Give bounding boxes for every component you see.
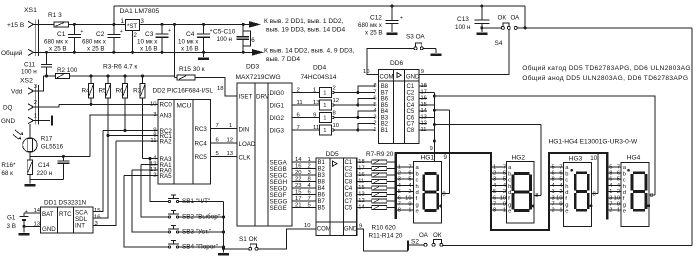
svg-text:15: 15: [94, 208, 101, 214]
display HG2: [506, 162, 534, 224]
svg-text:R10 620: R10 620: [372, 225, 397, 232]
svg-text:B3: B3: [318, 173, 326, 179]
svg-text:B4: B4: [381, 109, 389, 115]
svg-text:2: 2: [493, 171, 496, 177]
svg-text:10: 10: [304, 223, 311, 229]
svg-text:6: 6: [398, 195, 401, 201]
svg-text:х 16 В: х 16 В: [140, 46, 158, 53]
svg-text:2: 2: [398, 171, 401, 177]
svg-text:C11: C11: [24, 62, 36, 69]
svg-text:C12: C12: [370, 15, 382, 22]
wire DD6 COM to S3: [367, 48, 414, 74]
svg-text:1: 1: [323, 128, 326, 134]
svg-text:INT: INT: [75, 223, 85, 230]
svg-text:DRV: DRV: [256, 94, 270, 101]
svg-text:9: 9: [503, 202, 506, 208]
svg-text:2: 2: [559, 189, 562, 195]
svg-text:d: d: [623, 190, 626, 196]
svg-text:10: 10: [590, 155, 597, 162]
svg-text:b: b: [565, 171, 568, 177]
svg-text:e: e: [508, 209, 511, 215]
resistor R8: [372, 167, 387, 171]
wire ground rail: [34, 51, 253, 53]
svg-text:4: 4: [373, 108, 376, 114]
resistor R7: [372, 160, 387, 164]
svg-text:g: g: [508, 202, 511, 208]
wire S4 to DD6 GND: [419, 30, 509, 75]
svg-text:g: g: [565, 202, 568, 208]
svg-text:1: 1: [323, 90, 326, 96]
svg-text:B7: B7: [318, 199, 326, 205]
svg-text:680 мк х: 680 мк х: [358, 22, 383, 29]
svg-text:8: 8: [398, 208, 401, 214]
wire Vdd sensor line: [44, 75, 56, 77]
svg-text:DIG3: DIG3: [270, 127, 285, 134]
svg-text:8: 8: [650, 193, 653, 199]
svg-text:21: 21: [295, 203, 302, 209]
svg-text:b: b: [508, 171, 511, 177]
wire RC2 line: [103, 130, 158, 132]
svg-text:68 к: 68 к: [1, 170, 13, 177]
wire XS2 Vdd: [34, 76, 44, 91]
svg-text:7: 7: [552, 202, 555, 208]
wire RA2 line: [116, 140, 158, 142]
svg-text:B8: B8: [381, 84, 389, 90]
wire R11 to bus: [387, 187, 396, 189]
svg-text:9: 9: [421, 69, 424, 75]
svg-text:R15 30 к: R15 30 к: [179, 66, 205, 73]
svg-text:ОК: ОК: [498, 15, 507, 22]
display HG3: [564, 162, 592, 226]
wire R6 bottom: [124, 98, 126, 131]
svg-text:h: h: [623, 184, 626, 190]
svg-text:2: 2: [373, 121, 376, 127]
svg-text:2: 2: [503, 189, 506, 195]
svg-text:ОК: ОК: [433, 232, 442, 239]
svg-text:выв. 19 DD3, выв. 14 DD4: выв. 19 DD3, выв. 14 DD4: [266, 27, 346, 34]
svg-text:+15 В: +15 В: [7, 22, 24, 29]
svg-text:1: 1: [408, 208, 411, 214]
svg-text:6: 6: [373, 96, 376, 102]
wire R4 bottom: [90, 98, 92, 105]
svg-text:SB2 "Выбор": SB2 "Выбор": [182, 212, 220, 220]
svg-text:1: 1: [617, 208, 620, 214]
svg-text:B8: B8: [318, 180, 326, 186]
wire pullup rail: [69, 75, 174, 77]
svg-text:9: 9: [559, 202, 562, 208]
wire R9 to bus: [387, 174, 396, 176]
svg-text:х 25 В: х 25 В: [87, 46, 105, 53]
wire +15V rail: [34, 23, 55, 25]
svg-text:4: 4: [503, 183, 506, 189]
svg-text:B2: B2: [318, 167, 326, 173]
svg-text:100 н: 100 н: [217, 36, 232, 43]
svg-text:RTC: RTC: [59, 211, 72, 218]
svg-text:2: 2: [617, 189, 620, 195]
wire R14 to bus: [387, 207, 396, 209]
svg-text:8: 8: [552, 177, 555, 183]
svg-text:18: 18: [217, 86, 224, 92]
wire DD1 SDL to RC1: [93, 136, 108, 219]
svg-text:12: 12: [227, 138, 234, 144]
svg-text:12: 12: [333, 98, 340, 104]
svg-text:1: 1: [308, 157, 311, 163]
svg-text:DIG1: DIG1: [270, 102, 285, 109]
svg-text:c: c: [416, 178, 419, 184]
svg-text:13: 13: [227, 151, 234, 157]
svg-text:C2: C2: [96, 31, 105, 38]
svg-text:+: +: [168, 28, 171, 34]
svg-text:3: 3: [609, 195, 612, 201]
wire common stub column: [419, 92, 434, 94]
wire DD5 GND to S2: [357, 229, 408, 251]
svg-text:10: 10: [556, 195, 562, 201]
svg-text:R7-R9 20: R7-R9 20: [366, 151, 394, 158]
svg-text:DIG0: DIG0: [270, 90, 285, 97]
wire SB4 left: [124, 176, 168, 248]
svg-text:COM: COM: [380, 75, 394, 81]
svg-text:6: 6: [503, 171, 506, 177]
svg-text:c: c: [623, 178, 626, 184]
svg-text:7: 7: [408, 164, 411, 170]
svg-text:3: 3: [493, 177, 496, 183]
svg-text:10: 10: [614, 195, 620, 201]
svg-text:4: 4: [408, 183, 411, 189]
resistor R11: [372, 186, 387, 190]
svg-text:Общий катод DD5 TD62783APG, D: Общий катод DD5 TD62783APG, DD6 ULN2803A…: [522, 64, 691, 72]
wire DD5 C5 to resistor: [357, 207, 372, 209]
wire R17 bottom: [29, 152, 31, 156]
ground bar XS2: [51, 116, 53, 126]
node line sensor: [30, 155, 90, 157]
svg-text:К выв. 2 DD1, выв. 1 DD2,: К выв. 2 DD1, выв. 1 DD2,: [264, 18, 344, 25]
svg-text:GND: GND: [1, 118, 15, 125]
wire R16 C14 bottoms: [29, 174, 31, 179]
svg-text:S3 ОА: S3 ОА: [406, 34, 425, 41]
wire right edge vertical: [691, 28, 693, 245]
svg-text:C3: C3: [407, 97, 415, 103]
wire common to HG1 pin8: [434, 109, 449, 111]
svg-text:MAX7219CWG: MAX7219CWG: [236, 74, 281, 81]
svg-text:4: 4: [398, 183, 401, 189]
ground symbol at C4: [203, 52, 205, 57]
svg-text:14: 14: [295, 157, 302, 163]
wire R8 to bus: [387, 168, 396, 170]
svg-text:6: 6: [408, 171, 411, 177]
display HG3 pin8 stub: [592, 193, 598, 195]
svg-text:1: 1: [559, 208, 562, 214]
wire R3 bottom to RA3: [142, 98, 144, 159]
svg-text:+: +: [80, 29, 83, 35]
svg-text:b: b: [416, 171, 419, 177]
svg-text:5: 5: [559, 177, 562, 183]
svg-text:100 н: 100 н: [455, 24, 470, 31]
svg-text:DIG2: DIG2: [270, 115, 285, 122]
svg-text:2: 2: [609, 208, 612, 214]
svg-text:74HC04S14: 74HC04S14: [301, 74, 337, 81]
svg-text:GL5516: GL5516: [41, 144, 64, 151]
resistor R13: [372, 199, 387, 203]
svg-text:R2 100: R2 100: [57, 67, 78, 74]
wire R7 to bus: [387, 161, 396, 163]
svg-text:RC4: RC4: [195, 140, 208, 147]
svg-text:4: 4: [559, 183, 562, 189]
svg-text:C6: C6: [345, 193, 353, 199]
svg-text:13: 13: [313, 100, 320, 106]
svg-text:1: 1: [373, 127, 376, 133]
svg-text:100 н: 100 н: [21, 69, 37, 76]
svg-text:C13: C13: [457, 16, 469, 23]
wire SB common vertical: [223, 202, 225, 253]
svg-text:10 мк х: 10 мк х: [137, 39, 158, 46]
svg-text:C4: C4: [186, 31, 195, 38]
svg-text:7: 7: [297, 125, 300, 131]
wire RA5 line: [124, 175, 158, 177]
svg-text:8: 8: [593, 191, 596, 197]
svg-text:8: 8: [442, 191, 445, 197]
svg-text:G1: G1: [7, 215, 16, 222]
svg-text:+: +: [400, 16, 403, 22]
wire R10 to bus: [387, 181, 396, 183]
svg-text:2: 2: [308, 164, 311, 170]
svg-text:C1: C1: [345, 160, 353, 166]
svg-text:220 н: 220 н: [37, 170, 53, 177]
svg-text:e: e: [565, 209, 568, 215]
svg-text:DD4: DD4: [313, 65, 327, 72]
svg-text:C2: C2: [345, 167, 353, 173]
wire SB4 right: [179, 246, 224, 248]
display HG1: [414, 162, 442, 224]
svg-text:BAT: BAT: [42, 211, 54, 218]
button SB1: [168, 200, 170, 202]
svg-text:4: 4: [493, 183, 496, 189]
svg-text:6: 6: [493, 195, 496, 201]
svg-text:11: 11: [297, 100, 303, 106]
svg-text:C5-C10: C5-C10: [213, 29, 236, 36]
ground symbol sensor: [29, 180, 31, 184]
svg-text:C3: C3: [345, 173, 353, 179]
svg-text:5: 5: [609, 164, 612, 170]
wire DD4 out 3: [334, 117, 375, 119]
wire segment bus: [396, 153, 608, 230]
svg-text:R1 3: R1 3: [48, 12, 62, 19]
svg-text:HG1: HG1: [421, 155, 435, 162]
wire to AN3: [90, 115, 158, 156]
svg-text:4: 4: [617, 183, 620, 189]
svg-text:9: 9: [617, 202, 620, 208]
wire DD1 GND pin: [24, 225, 41, 227]
svg-text:LOAD: LOAD: [239, 141, 256, 148]
display HG2 pin8 stub: [534, 194, 541, 196]
svg-text:C5: C5: [345, 206, 353, 212]
svg-text:GND: GND: [344, 227, 358, 233]
svg-text:RA2: RA2: [160, 138, 173, 145]
ground symbol S3: [435, 48, 437, 53]
svg-text:C7: C7: [407, 122, 415, 128]
svg-text:7: 7: [559, 164, 562, 170]
svg-text:HG4: HG4: [627, 155, 641, 162]
svg-text:B5: B5: [318, 206, 326, 212]
svg-text:1: 1: [313, 87, 316, 93]
resistor R9: [372, 173, 387, 177]
wire G1 to ground: [23, 226, 25, 232]
resistor R12: [372, 193, 387, 197]
wire RC3 to DIN: [211, 128, 238, 130]
svg-text:R17: R17: [41, 136, 53, 143]
svg-text:5: 5: [493, 189, 496, 195]
svg-text:17: 17: [295, 196, 302, 202]
svg-text:1: 1: [503, 208, 506, 214]
wire DD4 out 4: [334, 129, 375, 131]
svg-text:B1: B1: [318, 160, 326, 166]
svg-text:MCU: MCU: [177, 103, 192, 110]
wire DD4 out 2: [334, 104, 375, 106]
svg-text:6: 6: [559, 171, 562, 177]
svg-text:22: 22: [295, 177, 302, 183]
svg-text:7: 7: [308, 196, 311, 202]
svg-text:3: 3: [34, 84, 37, 90]
wire DD1 SCA to RC2: [93, 131, 103, 212]
arrow to power pins: [249, 21, 261, 28]
inverter DD4 element 2: [320, 100, 332, 110]
svg-text:C4: C4: [345, 186, 353, 192]
wire SB3 right: [179, 231, 224, 233]
svg-text:g: g: [623, 202, 626, 208]
display HG4 pin8 stub: [649, 194, 655, 196]
svg-text:DIN: DIN: [239, 127, 250, 134]
svg-text:7: 7: [609, 202, 612, 208]
svg-text:1: 1: [552, 189, 555, 195]
svg-text:5: 5: [408, 177, 411, 183]
wire R17 top: [29, 124, 31, 138]
svg-text:9: 9: [444, 154, 448, 161]
wire DD5 C3 to resistor: [357, 174, 372, 176]
svg-text:6: 6: [617, 171, 620, 177]
svg-text:ISET: ISET: [239, 94, 253, 101]
resistor R14: [372, 206, 387, 210]
wire HG3 pin8 up to bus: [597, 153, 599, 194]
svg-text:х 25 В: х 25 В: [365, 30, 383, 37]
wire DD5 C6 to resistor: [357, 194, 372, 196]
svg-text:2: 2: [552, 208, 555, 214]
svg-text:GND: GND: [406, 75, 420, 81]
svg-text:B6: B6: [318, 193, 326, 199]
svg-text:7: 7: [503, 164, 506, 170]
svg-text:RC0: RC0: [160, 102, 173, 109]
svg-text:b: b: [623, 171, 626, 177]
svg-text:15: 15: [295, 190, 302, 196]
svg-text:C8: C8: [345, 180, 353, 186]
svg-text:5: 5: [503, 177, 506, 183]
svg-text:R3-R6 4.7 к: R3-R6 4.7 к: [103, 64, 137, 71]
svg-text:6: 6: [251, 37, 255, 44]
svg-text:23: 23: [295, 183, 302, 189]
svg-text:7: 7: [493, 202, 496, 208]
svg-text:выв. 7 DD4: выв. 7 DD4: [266, 56, 300, 63]
svg-text:R11-R14 20: R11-R14 20: [369, 233, 403, 240]
svg-text:B1: B1: [381, 128, 389, 134]
svg-text:C1: C1: [57, 31, 66, 38]
svg-text:9: 9: [408, 202, 411, 208]
svg-text:h: h: [416, 184, 419, 190]
wire RA1 line: [141, 164, 158, 166]
svg-text:+: +: [120, 29, 123, 35]
svg-text:10: 10: [333, 123, 340, 129]
svg-text:7: 7: [216, 123, 219, 129]
svg-text:DD6: DD6: [390, 60, 404, 67]
svg-text:c: c: [565, 178, 568, 184]
svg-text:HG3: HG3: [569, 155, 583, 162]
ground symbol at C13: [481, 28, 483, 32]
svg-text:c: c: [508, 178, 511, 184]
svg-text:К выв. 14 DD2, выв. 4, 9 DD3,: К выв. 14 DD2, выв. 4, 9 DD3,: [264, 48, 355, 55]
svg-text:DA1 LM7805: DA1 LM7805: [120, 8, 160, 15]
svg-text:HG1-HG4 E13001G-UR3-0-W: HG1-HG4 E13001G-UR3-0-W: [549, 139, 638, 146]
wire XS2 GND: [34, 120, 51, 122]
wire DD4 out 1: [334, 92, 375, 94]
wire common to HG4: [434, 96, 654, 195]
wire RC5 to CLK: [211, 156, 238, 158]
wire SB2 left: [141, 165, 168, 218]
svg-text:C5: C5: [407, 109, 415, 115]
svg-text:5: 5: [617, 177, 620, 183]
wire RA0 line: [132, 169, 158, 171]
wire rail R1 to DA1: [69, 23, 126, 25]
svg-text:2: 2: [408, 189, 411, 195]
svg-text:e: e: [623, 209, 626, 215]
wire SB1 right: [179, 201, 224, 203]
wire SB1 left: [150, 159, 168, 202]
svg-text:1: 1: [229, 123, 232, 129]
svg-text:d: d: [416, 190, 419, 196]
svg-text:3: 3: [552, 195, 555, 201]
svg-text:DQ: DQ: [3, 105, 13, 112]
svg-text:SEGE: SEGE: [270, 205, 287, 212]
wire R12 to bus: [387, 194, 396, 196]
svg-text:DD2 PIC16F684-I/SL: DD2 PIC16F684-I/SL: [153, 88, 214, 95]
ground symbol at C12: [387, 32, 398, 35]
wire DA1 pin2 to ground: [132, 31, 134, 53]
svg-text:C14: C14: [38, 162, 50, 169]
wires DIG to DD4: [292, 92, 320, 94]
svg-text:C1: C1: [407, 84, 415, 90]
arrow to ground pins: [252, 49, 264, 56]
button SB4: [168, 246, 170, 248]
wire common to HG2 pin8: [434, 124, 541, 126]
svg-text:5: 5: [552, 164, 555, 170]
wire SB3 left: [132, 170, 168, 232]
wire DD5 C8 to resistor: [357, 181, 372, 183]
wire DD1 INT to RA2: [93, 141, 116, 225]
svg-text:e: e: [416, 209, 419, 215]
svg-text:DD1 DS3231N: DD1 DS3231N: [44, 200, 87, 207]
svg-text:B4: B4: [318, 186, 326, 192]
svg-text:9: 9: [430, 146, 433, 152]
svg-text:680 мк х: 680 мк х: [44, 39, 69, 46]
svg-text:RA5: RA5: [160, 173, 173, 180]
svg-text:10: 10: [500, 195, 506, 201]
wire bottom right to S2: [443, 244, 692, 246]
svg-text:8: 8: [373, 83, 376, 89]
wire DD5 C2 to resistor: [357, 168, 372, 170]
svg-text:RC3: RC3: [195, 126, 208, 133]
svg-text:S4: S4: [495, 40, 503, 47]
svg-text:g: g: [416, 202, 419, 208]
svg-text:*ST: *ST: [127, 24, 137, 30]
wire RA3 line: [143, 158, 158, 160]
svg-text:Общий: Общий: [1, 49, 23, 57]
wire R5 bottom to SDL: [107, 98, 109, 136]
